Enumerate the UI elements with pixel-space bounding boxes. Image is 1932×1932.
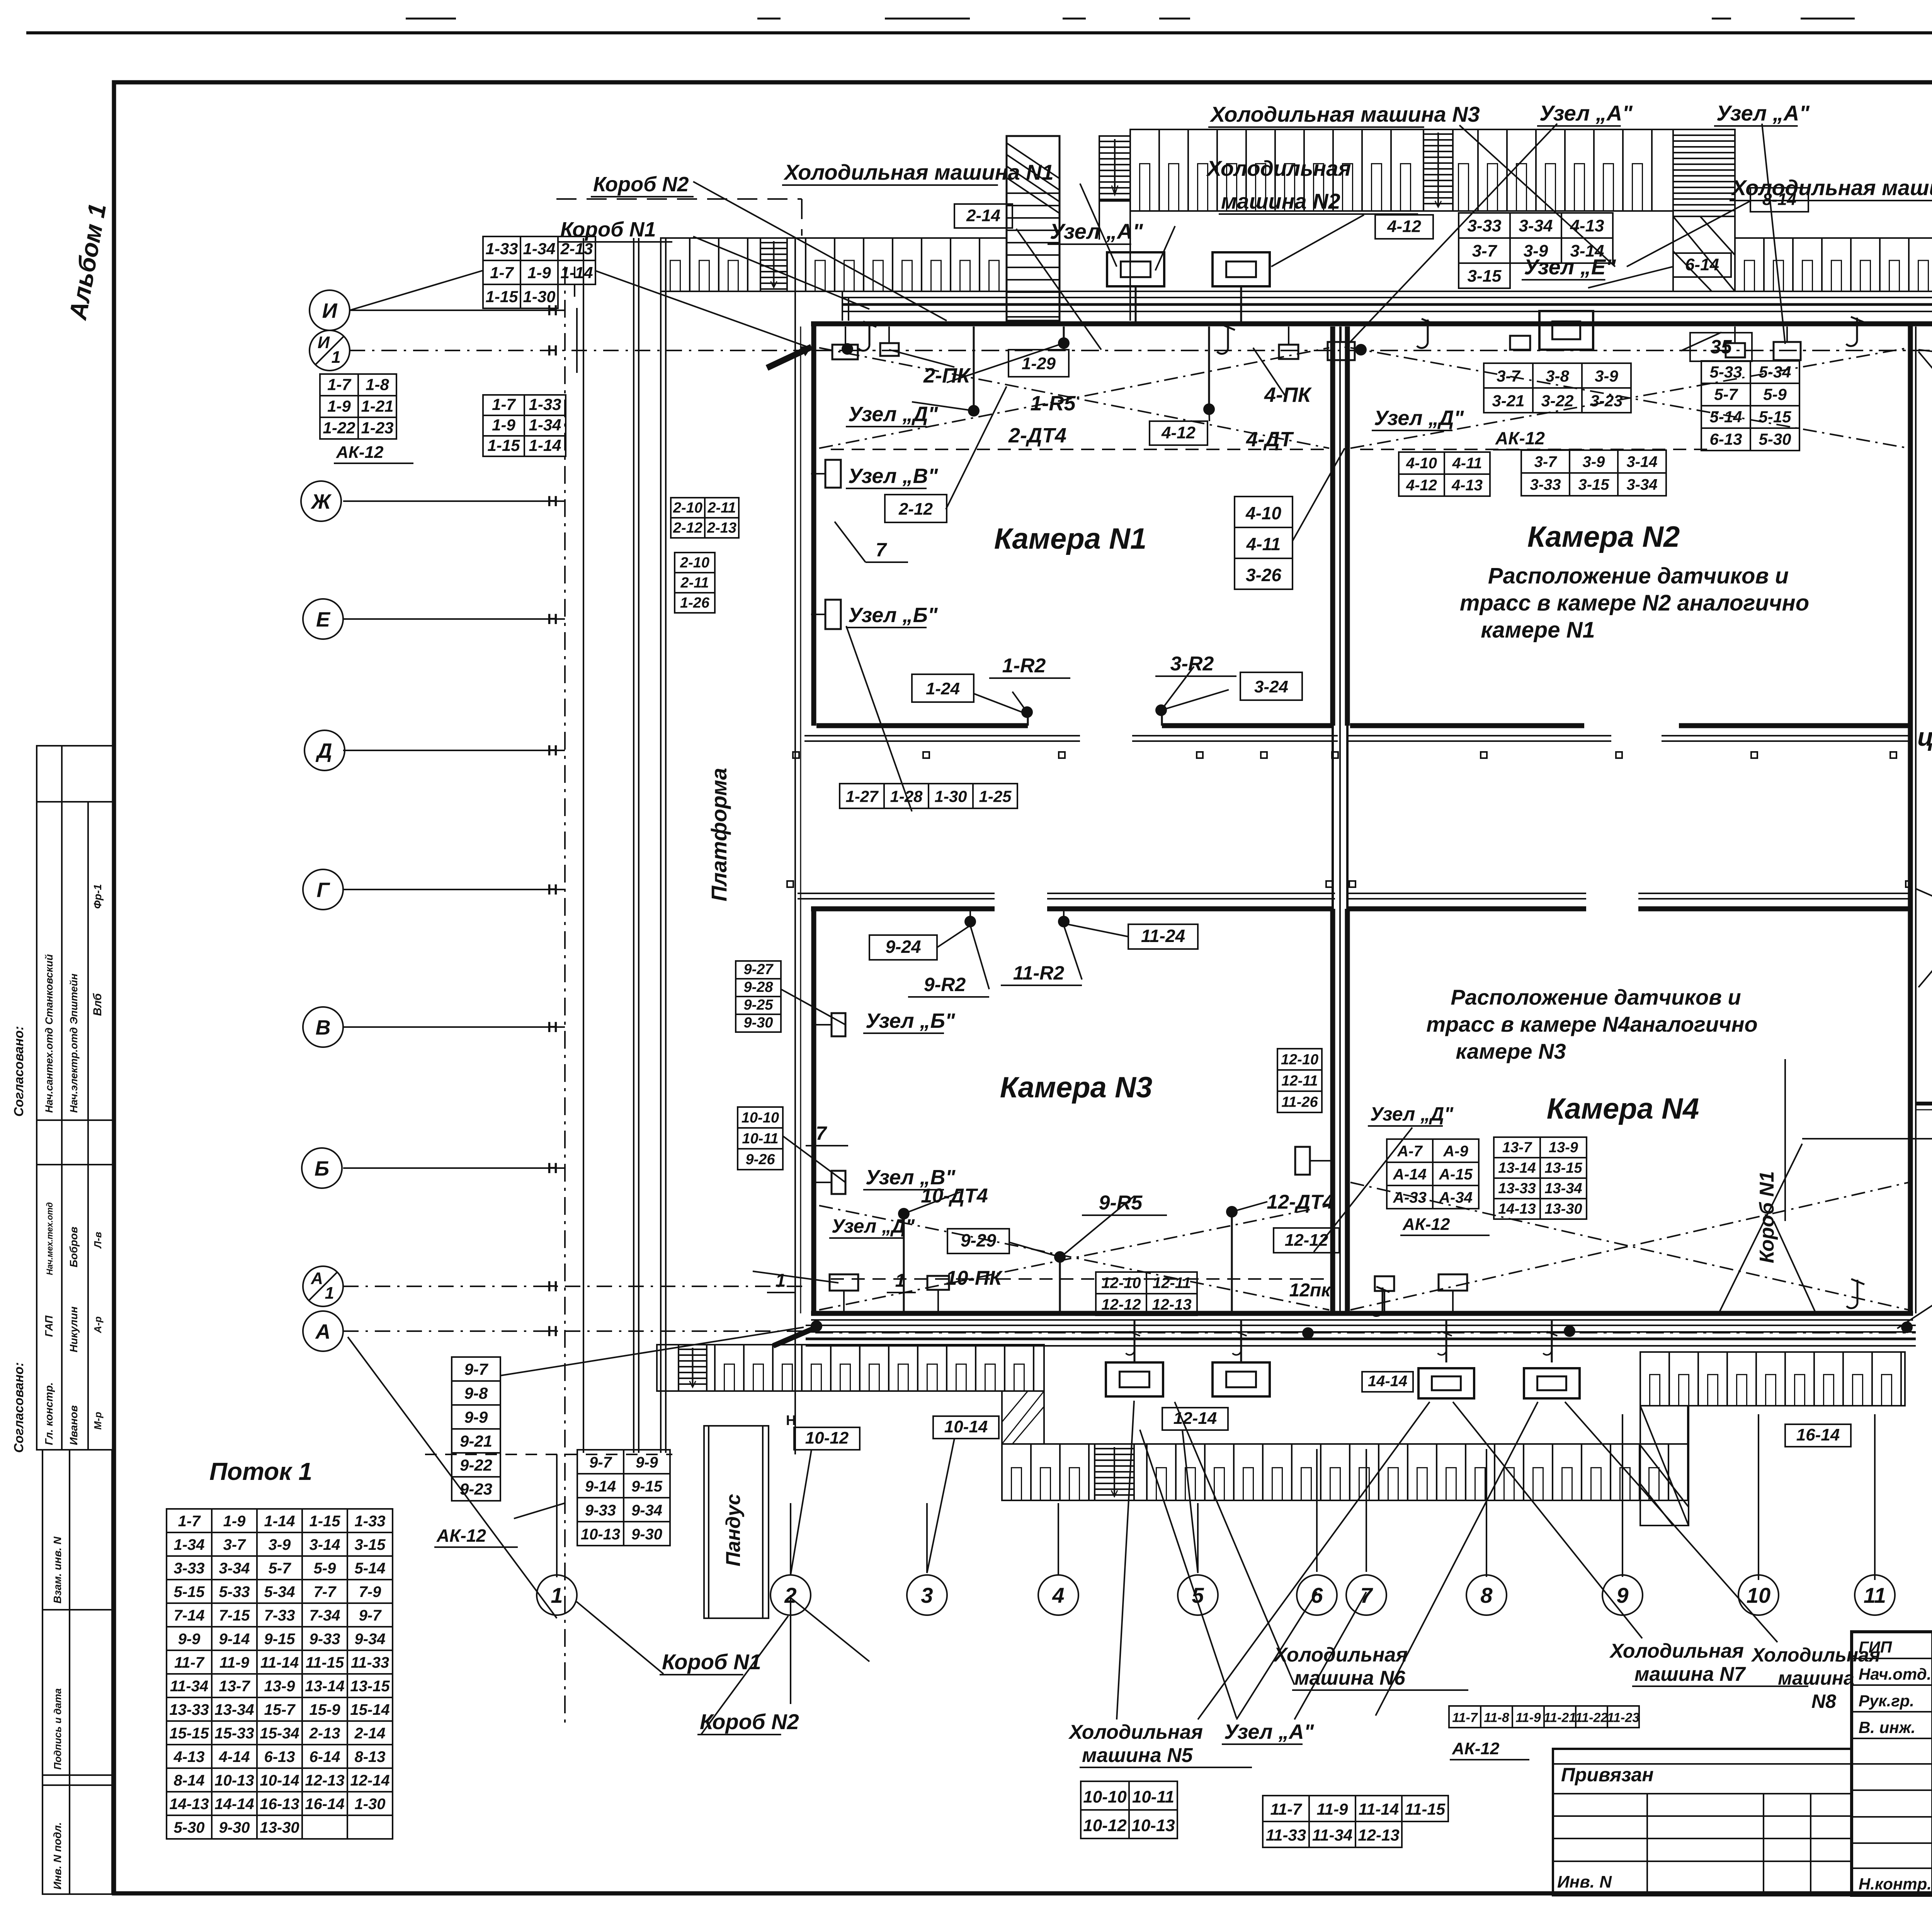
svg-text:14-13: 14-13 — [169, 1796, 209, 1813]
svg-text:2-10: 2-10 — [680, 554, 709, 571]
svg-text:3-33: 3-33 — [1467, 216, 1501, 235]
svg-text:7: 7 — [816, 1122, 827, 1144]
svg-text:Г: Г — [316, 878, 330, 901]
svg-text:13-7: 13-7 — [219, 1678, 250, 1695]
svg-text:А-9: А-9 — [1443, 1143, 1468, 1160]
svg-text:9-7: 9-7 — [589, 1454, 612, 1471]
svg-text:12-11: 12-11 — [1281, 1073, 1318, 1089]
svg-text:9-15: 9-15 — [264, 1631, 295, 1648]
svg-text:1-26: 1-26 — [680, 595, 710, 611]
svg-text:1-9: 1-9 — [492, 416, 515, 434]
svg-text:7: 7 — [876, 539, 887, 561]
svg-text:Е: Е — [316, 608, 331, 631]
svg-text:Узел „А": Узел „А" — [1716, 101, 1810, 125]
svg-text:9-9: 9-9 — [178, 1631, 201, 1648]
svg-text:13-34: 13-34 — [1544, 1180, 1582, 1197]
svg-text:А: А — [311, 1269, 323, 1288]
svg-text:1: 1 — [776, 1270, 786, 1291]
svg-text:11: 11 — [1864, 1583, 1886, 1607]
svg-text:13-33: 13-33 — [1498, 1180, 1536, 1197]
svg-text:ГИП: ГИП — [1859, 1638, 1892, 1656]
svg-text:1-7: 1-7 — [327, 375, 351, 393]
svg-text:5-14: 5-14 — [1709, 408, 1742, 426]
svg-text:1-30: 1-30 — [934, 787, 967, 805]
svg-text:3-9: 3-9 — [1595, 367, 1618, 385]
svg-text:13-34: 13-34 — [214, 1701, 254, 1718]
svg-text:13-15: 13-15 — [1544, 1160, 1582, 1176]
svg-text:1-9: 1-9 — [327, 397, 351, 415]
svg-text:10-14: 10-14 — [260, 1772, 299, 1789]
svg-text:2-13: 2-13 — [309, 1725, 340, 1742]
svg-text:1-7: 1-7 — [178, 1513, 201, 1530]
svg-text:12-12: 12-12 — [1101, 1296, 1141, 1313]
svg-text:9-8: 9-8 — [464, 1384, 488, 1402]
svg-text:13-14: 13-14 — [1498, 1160, 1536, 1176]
svg-text:11-14: 11-14 — [1359, 1800, 1399, 1818]
svg-text:1-30: 1-30 — [354, 1796, 385, 1813]
svg-text:6-13: 6-13 — [1709, 430, 1742, 448]
svg-text:камере N1: камере N1 — [1481, 617, 1595, 643]
svg-text:машина N7: машина N7 — [1634, 1663, 1746, 1685]
svg-text:11-7: 11-7 — [1270, 1800, 1303, 1818]
svg-text:1: 1 — [895, 1270, 906, 1291]
svg-text:9-21: 9-21 — [460, 1432, 492, 1450]
svg-text:9: 9 — [1616, 1583, 1628, 1607]
svg-text:Расположение датчиков и: Расположение датчиков и — [1488, 563, 1789, 588]
svg-text:1-14: 1-14 — [529, 436, 561, 454]
svg-text:5-7: 5-7 — [269, 1560, 292, 1577]
svg-text:1-23: 1-23 — [361, 418, 393, 437]
svg-text:Узел „Д": Узел „Д" — [848, 403, 939, 426]
svg-text:9-30: 9-30 — [743, 1015, 773, 1031]
svg-text:3-8: 3-8 — [1546, 367, 1569, 385]
svg-text:5-30: 5-30 — [173, 1819, 204, 1836]
svg-text:Взам. инв. N: Взам. инв. N — [51, 1536, 63, 1604]
svg-text:3-14: 3-14 — [1570, 241, 1604, 260]
svg-text:Узел „В": Узел „В" — [848, 464, 939, 488]
svg-text:12-10: 12-10 — [1281, 1052, 1318, 1068]
svg-text:3-15: 3-15 — [1467, 267, 1502, 286]
svg-text:14-14: 14-14 — [1368, 1372, 1407, 1389]
svg-text:1-7: 1-7 — [492, 395, 516, 413]
svg-text:15-34: 15-34 — [260, 1725, 299, 1742]
svg-text:11-7: 11-7 — [174, 1654, 205, 1671]
svg-text:3-26: 3-26 — [1246, 565, 1281, 585]
svg-text:машина N6: машина N6 — [1294, 1667, 1406, 1689]
svg-text:4-13: 4-13 — [1451, 477, 1483, 494]
svg-text:Узел „Д": Узел „Д" — [1374, 406, 1464, 430]
svg-text:11-R2: 11-R2 — [1013, 962, 1065, 984]
svg-text:Холодильная машина N3: Холодильная машина N3 — [1209, 102, 1480, 126]
svg-text:7-34: 7-34 — [309, 1607, 340, 1624]
svg-text:11-9: 11-9 — [1317, 1800, 1349, 1818]
svg-text:12-13: 12-13 — [1358, 1826, 1399, 1844]
svg-text:9-R2: 9-R2 — [924, 974, 966, 995]
svg-text:Камера N3: Камера N3 — [1000, 1071, 1152, 1104]
svg-text:12-14: 12-14 — [350, 1772, 389, 1789]
svg-text:12-14: 12-14 — [1173, 1409, 1217, 1428]
svg-text:1-14: 1-14 — [264, 1513, 295, 1530]
svg-text:М-р: М-р — [92, 1412, 104, 1430]
svg-text:3-7: 3-7 — [223, 1536, 247, 1553]
svg-text:11-23: 11-23 — [1607, 1710, 1640, 1725]
svg-text:1-22: 1-22 — [323, 418, 355, 437]
svg-text:H: H — [547, 343, 558, 359]
svg-text:Холодильная: Холодильная — [1609, 1640, 1744, 1662]
svg-text:3-7: 3-7 — [1472, 241, 1498, 260]
svg-text:Бобров: Бобров — [68, 1227, 80, 1267]
svg-text:3-9: 3-9 — [1583, 454, 1605, 471]
svg-text:3-24: 3-24 — [1254, 677, 1288, 696]
svg-text:7-7: 7-7 — [314, 1583, 337, 1600]
svg-text:3-14: 3-14 — [1626, 454, 1657, 471]
svg-text:Инв. N подл.: Инв. N подл. — [51, 1822, 63, 1889]
svg-text:Холодильная: Холодильная — [1273, 1644, 1408, 1666]
svg-text:9-33: 9-33 — [309, 1631, 340, 1648]
svg-text:12-10: 12-10 — [1101, 1274, 1141, 1291]
svg-text:2-11: 2-11 — [680, 575, 709, 591]
svg-text:13-14: 13-14 — [305, 1678, 344, 1695]
svg-text:1-29: 1-29 — [1022, 354, 1056, 373]
svg-text:9-14: 9-14 — [219, 1631, 250, 1648]
svg-text:1: 1 — [332, 348, 341, 367]
svg-text:5-9: 5-9 — [1763, 385, 1787, 403]
svg-text:Подпись и дата: Подпись и дата — [52, 1688, 63, 1770]
svg-text:11-34: 11-34 — [170, 1678, 208, 1695]
svg-text:10-12: 10-12 — [1083, 1816, 1127, 1835]
svg-text:13-33: 13-33 — [169, 1701, 209, 1718]
svg-text:8-14: 8-14 — [1762, 190, 1796, 209]
svg-text:А-14: А-14 — [1393, 1166, 1427, 1183]
svg-text:1-33: 1-33 — [354, 1513, 385, 1530]
svg-text:Нач.электр.отд Эпштейн: Нач.электр.отд Эпштейн — [68, 974, 80, 1113]
svg-text:9-28: 9-28 — [743, 979, 773, 995]
svg-text:4-12: 4-12 — [1406, 477, 1437, 494]
svg-text:11-9: 11-9 — [1515, 1710, 1541, 1725]
svg-text:Гл. констр.: Гл. констр. — [43, 1382, 55, 1445]
svg-text:12-ДТ4: 12-ДТ4 — [1267, 1191, 1333, 1213]
svg-text:6: 6 — [1311, 1583, 1323, 1607]
svg-text:5-34: 5-34 — [1759, 363, 1791, 381]
svg-text:N8: N8 — [1811, 1690, 1836, 1712]
svg-text:6-14: 6-14 — [1685, 255, 1719, 274]
svg-text:10: 10 — [1747, 1583, 1770, 1607]
svg-text:3-14: 3-14 — [309, 1536, 340, 1553]
svg-text:9-7: 9-7 — [464, 1360, 488, 1378]
svg-text:4-10: 4-10 — [1245, 503, 1281, 523]
svg-text:1-15: 1-15 — [487, 436, 520, 454]
svg-text:10-10: 10-10 — [1083, 1787, 1127, 1806]
svg-text:2-11: 2-11 — [707, 500, 736, 516]
svg-text:11-7: 11-7 — [1452, 1710, 1478, 1725]
svg-text:1-21: 1-21 — [361, 397, 393, 415]
svg-text:трасс в камере N2 аналогично: трасс в камере N2 аналогично — [1460, 590, 1809, 616]
svg-text:15-7: 15-7 — [264, 1701, 296, 1718]
svg-text:5-33: 5-33 — [219, 1583, 250, 1600]
svg-text:Поток 1: Поток 1 — [209, 1458, 312, 1485]
svg-text:12-11: 12-11 — [1153, 1274, 1191, 1291]
svg-text:3: 3 — [921, 1583, 933, 1607]
svg-text:Узел „Б": Узел „Б" — [866, 1009, 956, 1032]
svg-text:2-ПК: 2-ПК — [923, 364, 971, 387]
svg-text:Короб N1: Короб N1 — [1756, 1171, 1778, 1263]
svg-text:H: H — [547, 1323, 558, 1340]
svg-text:1: 1 — [551, 1583, 563, 1607]
svg-text:А-7: А-7 — [1397, 1143, 1423, 1160]
svg-text:7: 7 — [1360, 1583, 1373, 1607]
svg-text:16-14: 16-14 — [305, 1796, 344, 1813]
svg-text:В. инж.: В. инж. — [1859, 1718, 1915, 1736]
svg-text:Камера N2: Камера N2 — [1527, 520, 1680, 553]
svg-text:4-12: 4-12 — [1387, 217, 1422, 236]
svg-text:4-13: 4-13 — [1570, 216, 1604, 235]
svg-text:2-ДТ4: 2-ДТ4 — [1008, 424, 1066, 447]
svg-text:4-11: 4-11 — [1452, 455, 1482, 472]
svg-text:H: H — [547, 1160, 558, 1177]
svg-text:6-13: 6-13 — [264, 1748, 295, 1765]
svg-text:9-25: 9-25 — [743, 997, 773, 1013]
svg-text:3-33: 3-33 — [173, 1560, 204, 1577]
svg-text:4: 4 — [1052, 1583, 1064, 1607]
svg-text:10-13: 10-13 — [1131, 1816, 1175, 1835]
svg-text:14-14: 14-14 — [214, 1796, 254, 1813]
svg-text:5-15: 5-15 — [1759, 408, 1791, 426]
svg-text:Узел „А": Узел „А" — [1050, 219, 1143, 243]
svg-text:машина N5: машина N5 — [1082, 1744, 1193, 1767]
svg-text:4-14: 4-14 — [218, 1748, 250, 1765]
svg-text:10-14: 10-14 — [944, 1417, 988, 1436]
svg-text:Нач.сантех.отд Станковский: Нач.сантех.отд Станковский — [43, 954, 55, 1113]
svg-text:1-15: 1-15 — [485, 287, 518, 306]
svg-text:12-13: 12-13 — [1152, 1296, 1191, 1313]
svg-text:H: H — [547, 493, 558, 510]
svg-text:11-15: 11-15 — [1405, 1800, 1446, 1818]
svg-text:10-13: 10-13 — [214, 1772, 254, 1789]
svg-text:1-24: 1-24 — [926, 679, 960, 698]
svg-text:Расположение датчиков и: Расположение датчиков и — [1451, 985, 1741, 1009]
svg-text:АК-12: АК-12 — [436, 1526, 486, 1546]
svg-text:Узел „Б": Узел „Б" — [848, 604, 938, 627]
svg-text:11-26: 11-26 — [1281, 1094, 1318, 1111]
svg-text:машина N2: машина N2 — [1221, 189, 1340, 213]
svg-text:И: И — [322, 299, 338, 322]
svg-text:Пандус: Пандус — [722, 1494, 745, 1566]
svg-text:9-27: 9-27 — [743, 961, 774, 978]
svg-text:1: 1 — [325, 1284, 334, 1303]
svg-text:12-13: 12-13 — [305, 1772, 344, 1789]
svg-text:5-34: 5-34 — [264, 1583, 295, 1600]
svg-text:А-33: А-33 — [1393, 1189, 1427, 1206]
svg-text:10-11: 10-11 — [1132, 1787, 1174, 1806]
svg-text:10-ДТ4: 10-ДТ4 — [921, 1185, 988, 1207]
svg-text:9-7: 9-7 — [359, 1607, 382, 1624]
svg-text:7-14: 7-14 — [173, 1607, 204, 1624]
svg-text:АК-12: АК-12 — [1495, 428, 1545, 448]
svg-text:1-9: 1-9 — [527, 264, 551, 282]
svg-text:10-11: 10-11 — [742, 1131, 778, 1147]
svg-text:3-15: 3-15 — [354, 1536, 386, 1553]
svg-text:4-ДТ: 4-ДТ — [1246, 428, 1294, 451]
svg-text:3-34: 3-34 — [1626, 476, 1657, 493]
svg-text:Камера N1: Камера N1 — [994, 522, 1146, 555]
svg-text:9-30: 9-30 — [219, 1819, 250, 1836]
svg-text:Узел „А": Узел „А" — [1539, 101, 1633, 125]
svg-text:8-13: 8-13 — [354, 1748, 385, 1765]
svg-text:Фр-1: Фр-1 — [92, 884, 104, 909]
svg-text:5-7: 5-7 — [1714, 385, 1738, 403]
svg-text:1-9: 1-9 — [223, 1513, 246, 1530]
svg-text:Холодильная машина N1: Холодильная машина N1 — [783, 160, 1054, 184]
svg-text:3-34: 3-34 — [1519, 216, 1553, 235]
svg-text:15-15: 15-15 — [169, 1725, 209, 1742]
svg-text:9-23: 9-23 — [460, 1480, 492, 1498]
svg-text:2-14: 2-14 — [966, 206, 1000, 225]
svg-text:3-7: 3-7 — [1534, 454, 1558, 471]
svg-text:11-8: 11-8 — [1484, 1710, 1509, 1725]
svg-text:8-14: 8-14 — [173, 1772, 204, 1789]
svg-text:11-14: 11-14 — [260, 1654, 299, 1671]
svg-text:12пк: 12пк — [1289, 1280, 1332, 1301]
svg-text:2-10: 2-10 — [673, 500, 702, 516]
svg-text:H: H — [786, 1412, 796, 1428]
svg-text:В: В — [316, 1016, 331, 1039]
svg-text:1-34: 1-34 — [173, 1536, 204, 1553]
svg-text:9-26: 9-26 — [745, 1151, 775, 1168]
svg-text:9-R5: 9-R5 — [1099, 1192, 1143, 1214]
svg-text:13-30: 13-30 — [260, 1819, 299, 1836]
svg-text:3-21: 3-21 — [1492, 391, 1524, 410]
svg-text:Короб N1: Короб N1 — [662, 1650, 761, 1674]
svg-text:Нач.отд.: Нач.отд. — [1859, 1665, 1931, 1683]
svg-text:Камера N4: Камера N4 — [1547, 1092, 1699, 1125]
svg-text:1-25: 1-25 — [979, 787, 1012, 805]
svg-text:9-14: 9-14 — [585, 1478, 616, 1495]
svg-text:Согласовано:: Согласовано: — [12, 1026, 26, 1117]
svg-text:4-13: 4-13 — [173, 1748, 204, 1765]
svg-text:15-9: 15-9 — [309, 1701, 340, 1718]
svg-text:H: H — [547, 882, 558, 898]
svg-text:3-23: 3-23 — [1590, 391, 1622, 410]
svg-text:H: H — [547, 1279, 558, 1295]
svg-text:7-33: 7-33 — [264, 1607, 295, 1624]
svg-text:3-33: 3-33 — [1530, 476, 1561, 493]
svg-text:1-R5: 1-R5 — [1030, 392, 1076, 415]
svg-text:11-33: 11-33 — [351, 1654, 389, 1671]
svg-text:4-12: 4-12 — [1161, 423, 1196, 442]
svg-text:13-9: 13-9 — [1549, 1139, 1578, 1156]
svg-text:5-14: 5-14 — [354, 1560, 385, 1577]
svg-text:Д: Д — [316, 739, 332, 762]
svg-text:Согласовано:: Согласовано: — [12, 1362, 26, 1453]
svg-text:Л-в: Л-в — [92, 1231, 104, 1249]
svg-text:1-8: 1-8 — [366, 375, 389, 393]
svg-text:2-13: 2-13 — [707, 520, 736, 536]
svg-text:ГАП: ГАП — [43, 1315, 55, 1337]
svg-text:Никулин: Никулин — [68, 1306, 80, 1352]
svg-text:Н.контр.: Н.контр. — [1859, 1875, 1932, 1893]
svg-text:А-р: А-р — [92, 1316, 104, 1333]
svg-text:5-9: 5-9 — [314, 1560, 337, 1577]
svg-text:9-9: 9-9 — [464, 1408, 488, 1426]
svg-text:Короб N2: Короб N2 — [700, 1709, 799, 1734]
svg-text:15-14: 15-14 — [350, 1701, 389, 1718]
svg-text:5-30: 5-30 — [1759, 430, 1791, 448]
svg-text:10-10: 10-10 — [742, 1110, 779, 1126]
svg-text:9-29: 9-29 — [961, 1230, 996, 1250]
svg-text:Холодильная: Холодильная — [1206, 156, 1351, 180]
svg-text:1-28: 1-28 — [890, 787, 923, 805]
svg-text:АК-12: АК-12 — [1402, 1215, 1450, 1234]
svg-text:АК-12: АК-12 — [1452, 1739, 1500, 1758]
svg-text:12-12: 12-12 — [1285, 1231, 1328, 1250]
svg-text:14-13: 14-13 — [1498, 1201, 1536, 1217]
svg-text:АК-12: АК-12 — [336, 443, 384, 462]
svg-text:Платформа: Платформа — [707, 768, 731, 901]
svg-text:11-34: 11-34 — [1312, 1826, 1352, 1844]
svg-text:А-34: А-34 — [1439, 1189, 1473, 1206]
svg-text:5-15: 5-15 — [173, 1583, 205, 1600]
svg-text:Иванов: Иванов — [68, 1405, 80, 1445]
svg-text:4-10: 4-10 — [1406, 455, 1437, 472]
svg-text:13-15: 13-15 — [350, 1678, 390, 1695]
svg-text:А-15: А-15 — [1439, 1166, 1473, 1183]
svg-text:2-13: 2-13 — [560, 240, 593, 258]
svg-text:4-11: 4-11 — [1246, 534, 1281, 554]
svg-text:1-27: 1-27 — [845, 787, 879, 805]
svg-text:цех товарной обработки: цех товарной обработки — [1917, 723, 1932, 751]
svg-text:11-24: 11-24 — [1141, 926, 1185, 946]
svg-text:Влб: Влб — [91, 993, 104, 1016]
svg-text:35: 35 — [1710, 336, 1732, 357]
svg-text:10-ПК: 10-ПК — [946, 1267, 1003, 1289]
svg-text:11-9: 11-9 — [219, 1654, 250, 1671]
svg-text:трасс в камере N4аналогично: трасс в камере N4аналогично — [1426, 1012, 1758, 1036]
svg-text:3-R2: 3-R2 — [1170, 653, 1214, 675]
svg-text:1-14: 1-14 — [560, 264, 593, 282]
svg-text:Рук.гр.: Рук.гр. — [1859, 1692, 1914, 1710]
svg-text:1-15: 1-15 — [309, 1513, 340, 1530]
svg-text:1-34: 1-34 — [523, 240, 555, 258]
svg-text:9-22: 9-22 — [460, 1456, 492, 1474]
svg-text:1-7: 1-7 — [490, 264, 514, 282]
svg-text:16-13: 16-13 — [260, 1796, 299, 1813]
svg-text:камере N3: камере N3 — [1456, 1039, 1566, 1063]
svg-text:9-34: 9-34 — [631, 1502, 662, 1519]
svg-text:13-7: 13-7 — [1502, 1139, 1532, 1156]
svg-text:Ж: Ж — [310, 490, 332, 513]
svg-text:11-15: 11-15 — [306, 1654, 344, 1671]
svg-text:5: 5 — [1192, 1583, 1204, 1607]
svg-text:Б: Б — [315, 1157, 329, 1180]
svg-text:9-15: 9-15 — [631, 1478, 663, 1495]
svg-text:4-ПК: 4-ПК — [1264, 383, 1312, 406]
svg-text:5-33: 5-33 — [1709, 363, 1742, 381]
svg-text:H: H — [547, 1019, 558, 1036]
svg-text:1-33: 1-33 — [485, 240, 518, 258]
svg-text:7-9: 7-9 — [359, 1583, 382, 1600]
svg-text:А: А — [315, 1320, 331, 1343]
svg-text:Инв. N: Инв. N — [1557, 1872, 1612, 1891]
svg-text:1-34: 1-34 — [529, 416, 561, 434]
svg-text:13-30: 13-30 — [1544, 1201, 1582, 1217]
svg-text:11-22: 11-22 — [1575, 1710, 1608, 1725]
svg-text:3-34: 3-34 — [219, 1560, 250, 1577]
svg-text:Короб N2: Короб N2 — [593, 173, 689, 196]
svg-text:1-33: 1-33 — [529, 395, 561, 413]
svg-text:2-12: 2-12 — [898, 500, 933, 519]
svg-text:9-24: 9-24 — [885, 937, 921, 957]
svg-text:Нач.мех.тех.отд: Нач.мех.тех.отд — [45, 1202, 54, 1275]
